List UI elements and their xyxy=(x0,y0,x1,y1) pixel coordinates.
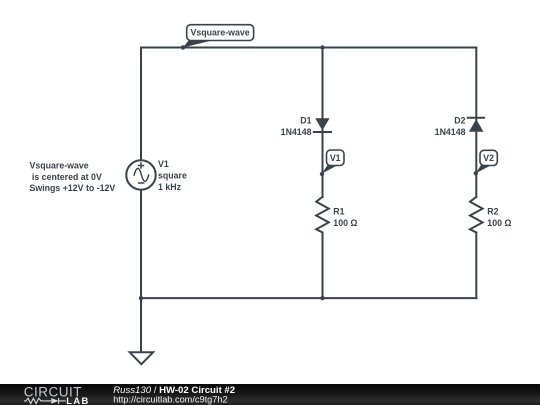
svg-text:LAB: LAB xyxy=(66,396,89,405)
svg-text:R1: R1 xyxy=(333,207,344,217)
svg-text:1 kHz: 1 kHz xyxy=(158,182,182,192)
svg-text:Swings +12V to -12V: Swings +12V to -12V xyxy=(30,183,116,193)
svg-text:100 Ω: 100 Ω xyxy=(487,218,511,228)
svg-text:http://circuitlab.com/c9tg7h2: http://circuitlab.com/c9tg7h2 xyxy=(113,395,227,405)
svg-text:is centered at 0V: is centered at 0V xyxy=(32,172,102,182)
svg-text:V2: V2 xyxy=(483,153,494,163)
svg-text:Vsquare-wave: Vsquare-wave xyxy=(30,161,89,171)
svg-text:1N4148: 1N4148 xyxy=(281,127,312,137)
svg-text:square: square xyxy=(158,170,187,180)
svg-text:1N4148: 1N4148 xyxy=(435,127,466,137)
svg-text:D1: D1 xyxy=(300,116,311,126)
svg-text:Vsquare-wave: Vsquare-wave xyxy=(191,28,250,38)
svg-text:100 Ω: 100 Ω xyxy=(333,218,357,228)
svg-text:R2: R2 xyxy=(487,207,498,217)
svg-text:V1: V1 xyxy=(330,153,341,163)
svg-text:V1: V1 xyxy=(158,159,169,169)
svg-text:D2: D2 xyxy=(454,116,465,126)
